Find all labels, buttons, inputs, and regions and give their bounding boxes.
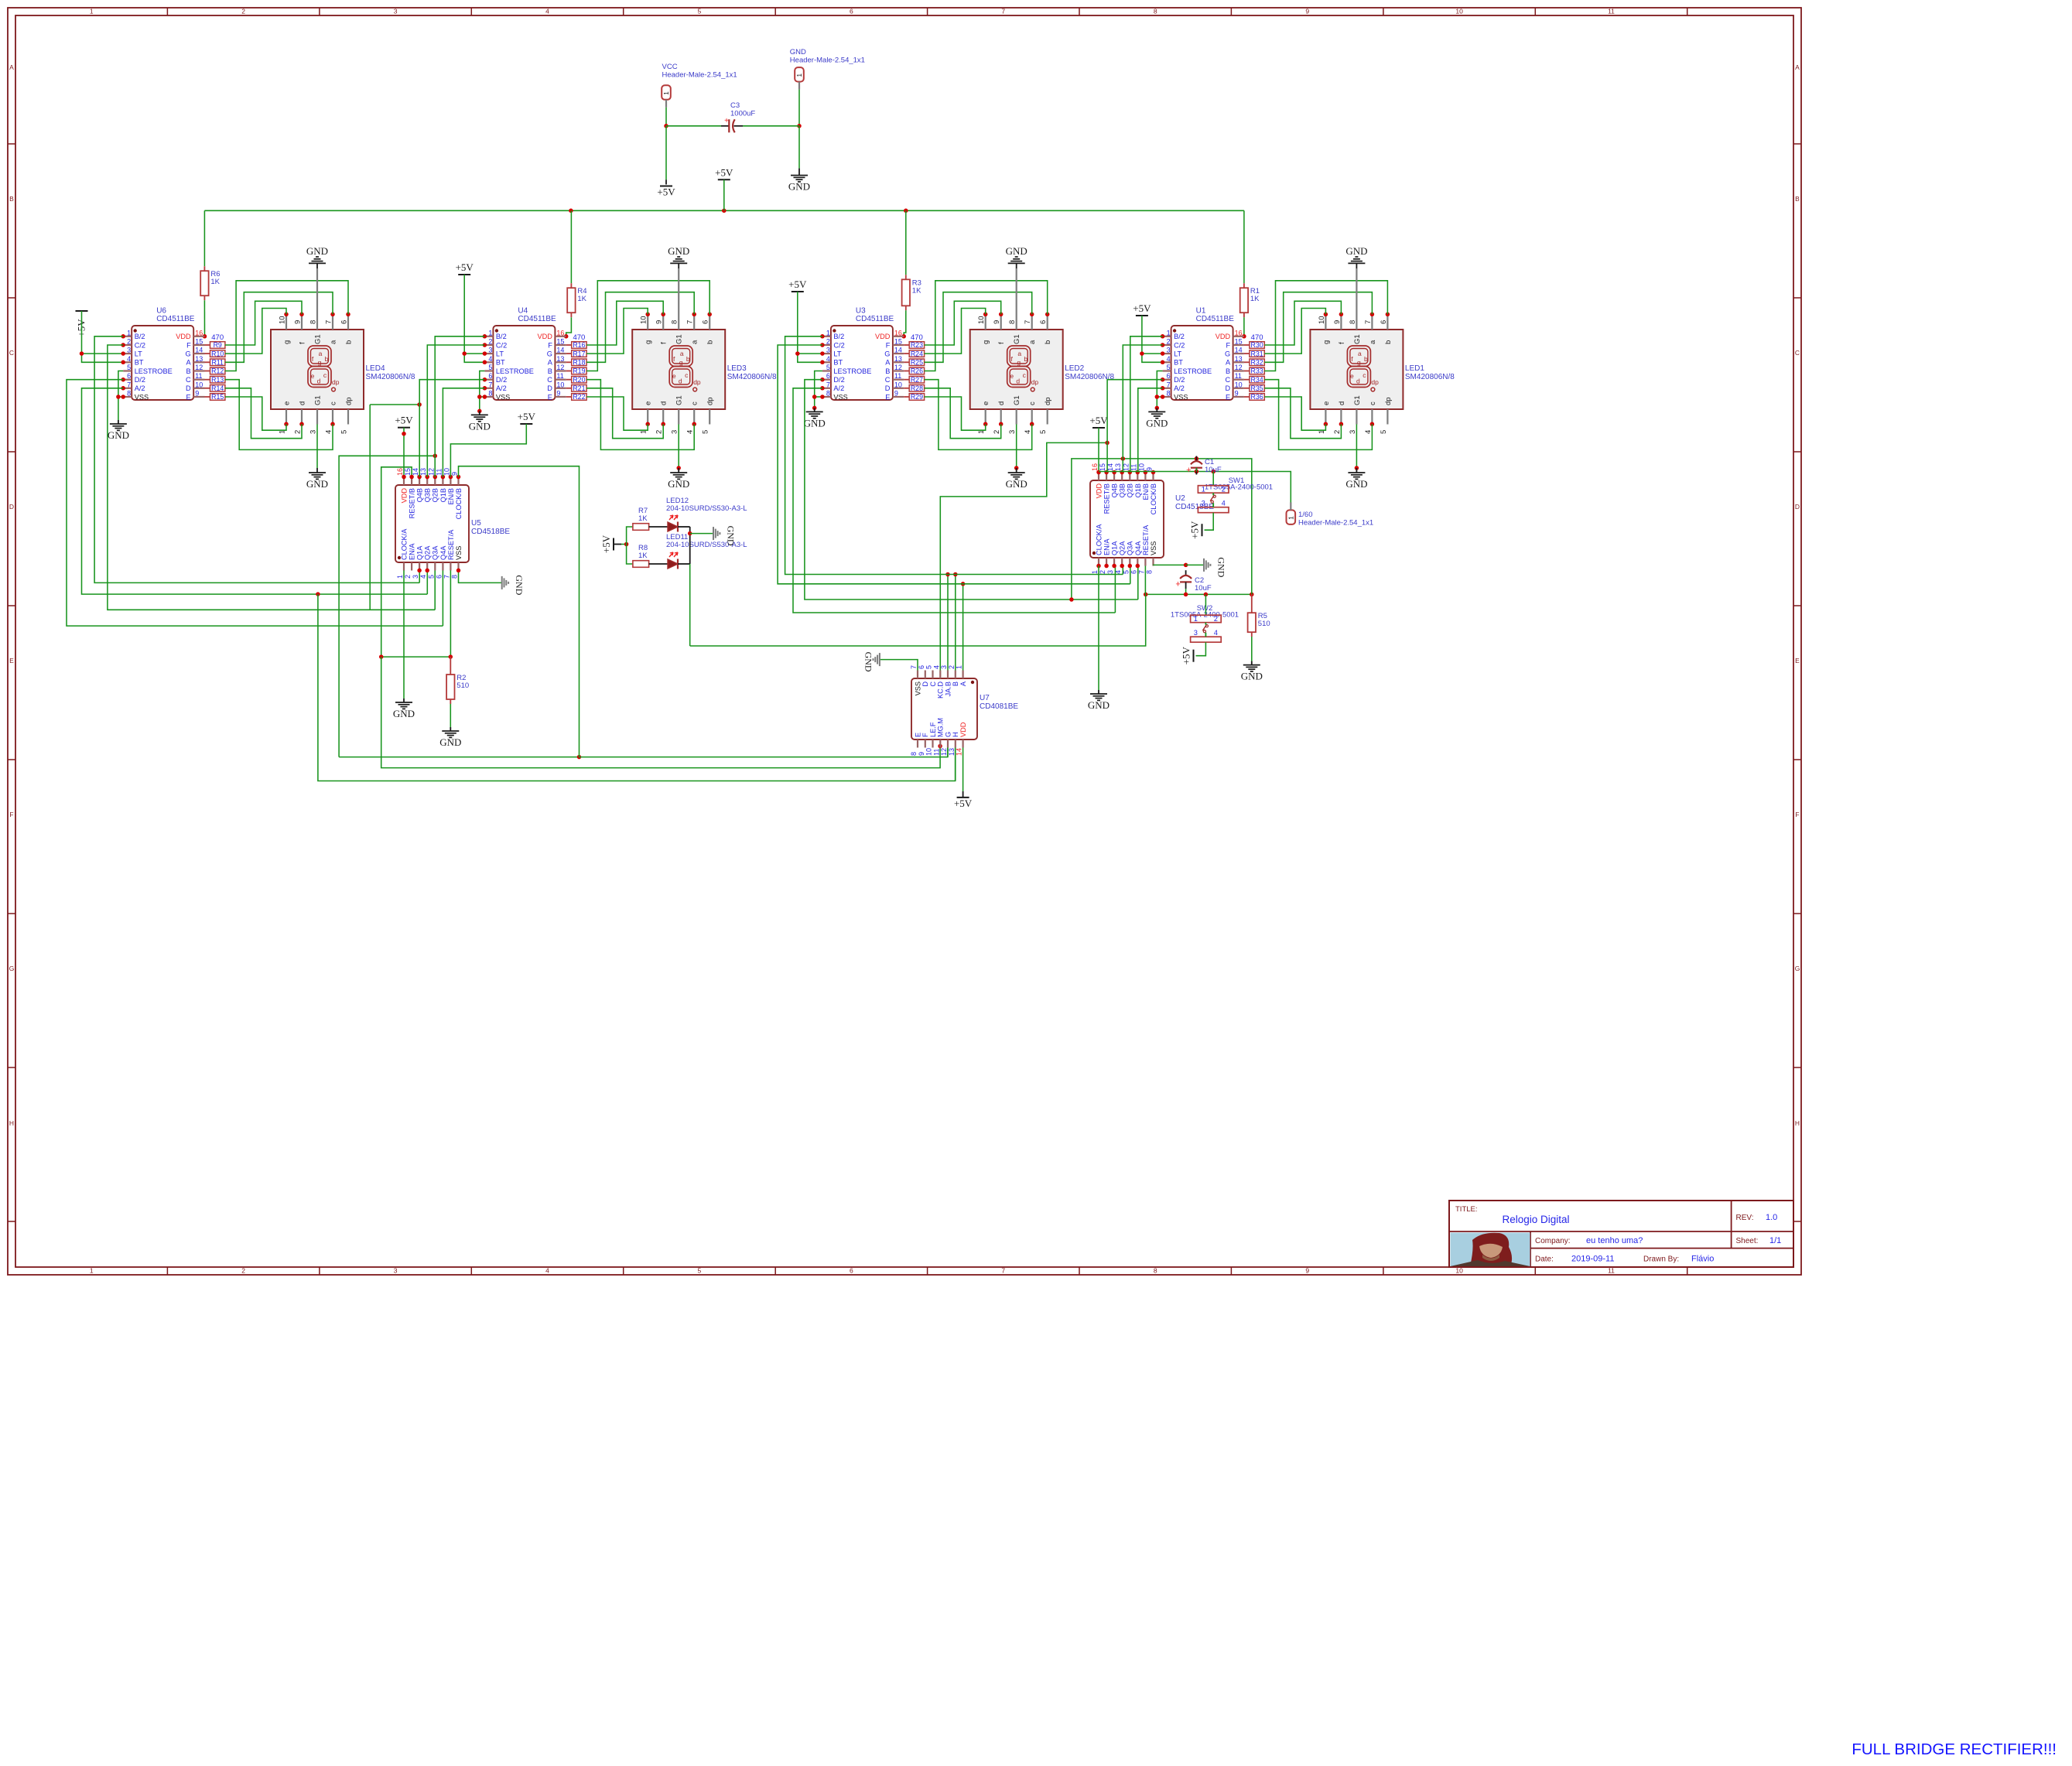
wire U3 B/2 bus — [785, 336, 1123, 575]
resistor R36 470 — [1250, 394, 1264, 401]
svg-text:10: 10 — [443, 468, 450, 476]
svg-text:1: 1 — [488, 329, 492, 336]
junction staircase C/2 row — [1121, 456, 1126, 461]
resistor R2 510 — [450, 657, 451, 675]
svg-text:EN/A: EN/A — [1103, 538, 1111, 555]
svg-text:R19: R19 — [573, 367, 585, 375]
junction pin4 U3 — [820, 360, 825, 365]
pin 3 U7 JA.B — [947, 671, 949, 679]
svg-text:dp: dp — [1044, 397, 1052, 405]
wire +5V to U2 VDD — [1098, 428, 1099, 473]
wire U2 RESET/A down — [1144, 566, 1146, 595]
pin 2 U2 EN/A — [1106, 558, 1107, 566]
junction LED cathode GND tap — [688, 531, 692, 536]
svg-text:a: a — [1017, 350, 1021, 357]
svg-text:B: B — [952, 681, 959, 686]
svg-text:4: 4 — [1024, 430, 1032, 434]
svg-text:e: e — [311, 372, 315, 380]
svg-text:8: 8 — [671, 320, 679, 324]
svg-text:8: 8 — [1008, 320, 1017, 324]
junction U5 top pin 13 — [425, 475, 429, 480]
resistor R17 470 — [572, 350, 586, 357]
resistor R7 1K — [633, 524, 649, 531]
junction A row — [961, 582, 966, 586]
svg-text:LE.F: LE.F — [929, 722, 937, 737]
svg-text:R25: R25 — [911, 359, 923, 367]
svg-text:b: b — [1044, 340, 1052, 344]
svg-text:A: A — [959, 681, 967, 686]
wire to R7 — [627, 527, 633, 545]
pin 8 LED3 G1 top — [678, 314, 679, 330]
svg-text:1K: 1K — [912, 286, 921, 295]
svg-text:CD4518BE: CD4518BE — [471, 528, 510, 536]
wire U7 G to row — [947, 748, 949, 757]
svg-text:dp: dp — [1384, 397, 1393, 405]
pin 2 U6 C/2 — [123, 344, 132, 346]
junction pin6 U6 — [121, 377, 125, 382]
pin 6 U7 D — [925, 671, 926, 679]
pin 11 U6 C — [193, 379, 204, 381]
svg-text:8: 8 — [127, 390, 131, 398]
junction JA.B row — [945, 572, 950, 577]
ground GND under header — [798, 169, 800, 176]
svg-text:GND: GND — [804, 417, 826, 429]
svg-text:Flávio: Flávio — [1691, 1255, 1714, 1264]
svg-text:11: 11 — [556, 372, 563, 380]
junction U2 bottom pin 5 — [1128, 564, 1133, 569]
resistor R11 470 — [210, 359, 225, 366]
pin 16 U3 VDD — [893, 336, 904, 337]
svg-text:3: 3 — [1202, 500, 1205, 507]
junction U2 top pin 9 — [1151, 470, 1156, 475]
svg-text:5: 5 — [826, 364, 830, 371]
svg-text:B/2: B/2 — [496, 333, 507, 340]
wire Q2A up — [426, 570, 428, 594]
svg-text:13: 13 — [948, 748, 956, 756]
wire R6 to VDD pin16 — [203, 300, 205, 336]
svg-text:4: 4 — [545, 8, 549, 15]
pin 12 U3 B — [893, 370, 904, 371]
svg-text:2: 2 — [488, 338, 492, 346]
svg-text:g: g — [283, 340, 292, 344]
pin 11 U7 MG.M — [939, 740, 941, 748]
pin 8 U4 VSS — [484, 396, 493, 398]
wire R3 to VDD pin16 — [904, 310, 906, 336]
svg-text:F: F — [921, 733, 929, 737]
svg-text:14: 14 — [1235, 347, 1243, 354]
svg-text:+5V: +5V — [395, 415, 413, 426]
junction U2 top pin 16 — [1096, 470, 1101, 475]
wire +5V to LT/BT U1 — [1142, 316, 1163, 362]
svg-text:9: 9 — [918, 752, 925, 756]
svg-text:7: 7 — [127, 381, 131, 388]
svg-text:d: d — [1338, 401, 1346, 405]
svg-text:D/2: D/2 — [833, 376, 844, 384]
svg-text:b: b — [1364, 355, 1368, 363]
svg-text:9: 9 — [1235, 390, 1239, 398]
pin 6 U2 Q4A — [1137, 558, 1138, 566]
pin 10 LED2 g top — [985, 314, 986, 330]
svg-text:GND: GND — [469, 420, 491, 432]
pin 14 U6 G — [193, 353, 204, 354]
wire GND header to node — [798, 90, 800, 126]
wire Q4A up — [442, 570, 443, 626]
svg-text:d: d — [1356, 377, 1360, 385]
wire U2 Q4A up — [1137, 566, 1139, 600]
svg-text:e: e — [645, 401, 653, 405]
junction C1 top row — [1195, 456, 1199, 461]
junction pin3 U4 — [483, 351, 487, 356]
resistor R19 470 — [572, 367, 586, 374]
wire U3 F to segment f — [925, 301, 1001, 345]
svg-text:D/2: D/2 — [496, 376, 507, 384]
svg-text:G: G — [884, 350, 890, 358]
svg-text:RESET/B: RESET/B — [409, 488, 416, 518]
svg-text:R31: R31 — [1251, 350, 1263, 357]
svg-text:D: D — [1795, 503, 1800, 511]
svg-text:R20: R20 — [573, 376, 585, 384]
svg-text:GND: GND — [788, 181, 810, 193]
svg-text:1: 1 — [90, 8, 94, 15]
svg-text:D: D — [186, 384, 191, 392]
svg-text:12: 12 — [556, 364, 564, 371]
wire C1 top — [1195, 459, 1197, 461]
svg-text:1: 1 — [396, 575, 404, 579]
svg-text:G1: G1 — [675, 334, 684, 344]
svg-text:f: f — [299, 342, 307, 344]
svg-text:B/2: B/2 — [833, 333, 844, 340]
pin 10 U4 D — [555, 388, 566, 389]
svg-text:a: a — [680, 350, 684, 357]
svg-text:Q1B: Q1B — [439, 488, 447, 502]
ground for U6 LESTROBE/VSS — [118, 371, 123, 421]
svg-text:JA.B: JA.B — [944, 681, 952, 696]
svg-text:F: F — [186, 341, 191, 349]
pin 6 LED1 b top — [1386, 314, 1388, 330]
wire U4 B to segment b — [586, 281, 709, 371]
pin 14 U2 Q4B — [1113, 473, 1115, 481]
ground GND below U2 — [1098, 690, 1099, 694]
wire U6 D to segment d — [225, 388, 302, 439]
svg-text:U5: U5 — [471, 519, 481, 528]
resistor R28 470 — [909, 385, 924, 392]
svg-text:LESTROBE: LESTROBE — [833, 367, 871, 375]
svg-text:dp: dp — [1371, 378, 1379, 386]
pin 3 U3 LT — [822, 353, 831, 354]
svg-text:GND: GND — [1345, 245, 1367, 257]
wire U1 G to segment g — [1264, 309, 1325, 354]
svg-text:G1: G1 — [1013, 395, 1021, 405]
pin 5 LED3 dp bottom — [709, 409, 710, 425]
pin 4 U5 Q2A — [426, 562, 428, 571]
svg-text:a: a — [691, 340, 699, 344]
op-amp U1 CD4511BE body — [1171, 326, 1233, 400]
power +5V sideways for LEDs — [613, 538, 614, 551]
resistor R5 510 — [1251, 594, 1253, 613]
svg-text:R9: R9 — [214, 341, 222, 349]
svg-text:14: 14 — [556, 347, 564, 354]
svg-text:4: 4 — [545, 1267, 549, 1275]
junction pin1 U3 — [820, 334, 825, 339]
svg-text:2: 2 — [1099, 570, 1106, 574]
resistor R12 470 — [210, 367, 225, 374]
svg-text:LESTROBE: LESTROBE — [135, 367, 173, 375]
junction U2 bottom pin 2 — [1104, 564, 1109, 569]
wire U4 A to segment a — [586, 292, 694, 363]
LED display LED2 SM420806N/8 body — [970, 330, 1063, 409]
svg-text:6: 6 — [1130, 570, 1137, 574]
svg-text:G1: G1 — [675, 395, 684, 405]
svg-text:510: 510 — [456, 681, 469, 690]
svg-text:+5V: +5V — [1181, 646, 1192, 664]
node VCC/C3+ — [664, 124, 668, 128]
pin 3 LED3 G1 bottom — [678, 409, 679, 425]
svg-text:6: 6 — [850, 8, 853, 15]
pin 1 U6 B/2 — [123, 336, 132, 337]
wire VCC to node — [665, 108, 667, 126]
pin 3 U5 Q1A — [419, 562, 420, 571]
junction pin3 U3 — [820, 351, 825, 356]
junction U2 top pin 11 — [1136, 470, 1140, 475]
svg-text:10: 10 — [279, 316, 287, 324]
svg-text:2: 2 — [241, 1267, 245, 1275]
op-amp U3 CD4511BE body — [831, 326, 893, 400]
svg-text:1: 1 — [956, 665, 963, 669]
pin 5 U4 LESTROBE — [484, 370, 493, 371]
wire U3 A/2 bus — [793, 388, 1115, 613]
svg-text:SM420806N/8: SM420806N/8 — [1405, 373, 1455, 381]
junction pin2 U4 — [483, 343, 487, 347]
svg-text:R13: R13 — [211, 376, 224, 384]
ground GND below LED2 — [1016, 425, 1017, 469]
ground sideways GND at U5 — [501, 576, 503, 589]
pin 15 U6 F — [193, 344, 204, 346]
wire U2 CLOCK/A to GND — [1098, 566, 1099, 691]
svg-text:A: A — [1795, 63, 1800, 71]
junction +5V stem — [402, 432, 406, 436]
wire U2 Q2A up — [1122, 566, 1123, 575]
pin 15 U1 F — [1233, 344, 1244, 346]
resistor R8 1K — [633, 561, 649, 568]
junction U2 top pin 12 — [1128, 470, 1133, 475]
svg-text:Header-Male-2.54_1x1: Header-Male-2.54_1x1 — [662, 71, 737, 80]
ground sideways GND at U2 — [1203, 558, 1205, 572]
node GND/C3- — [797, 124, 802, 128]
svg-text:Q4B: Q4B — [1111, 483, 1119, 497]
op-amp U7 CD4081BE body — [911, 678, 977, 740]
wire +5V to LED resistors — [614, 544, 621, 545]
svg-text:5: 5 — [427, 575, 435, 579]
svg-text:8: 8 — [1349, 320, 1357, 324]
svg-text:3: 3 — [1008, 430, 1017, 434]
svg-text:+5V: +5V — [518, 411, 536, 422]
pin 2 U1 C/2 — [1163, 344, 1171, 346]
pin 9 LED4 f top — [301, 314, 303, 330]
svg-text:GND: GND — [108, 429, 129, 441]
wire G row left part — [339, 757, 579, 758]
resistor R33 470 — [1250, 367, 1264, 374]
junction pin4 U4 — [483, 360, 487, 365]
LED1 seven segment glyph — [1347, 346, 1370, 367]
svg-text:A/2: A/2 — [496, 384, 507, 392]
svg-text:G: G — [9, 965, 15, 972]
pin 5 LED1 dp bottom — [1386, 409, 1388, 425]
junction RESET row left — [379, 654, 384, 659]
svg-text:R21: R21 — [573, 384, 585, 392]
svg-text:+5V: +5V — [600, 535, 612, 553]
svg-text:1: 1 — [1194, 615, 1198, 623]
wire C1 bottom — [1195, 468, 1197, 472]
pin 1 U4 B/2 — [484, 336, 493, 337]
ground sideways GND at LEDs — [713, 527, 714, 540]
svg-text:F: F — [886, 341, 891, 349]
svg-text:9: 9 — [294, 320, 303, 324]
svg-text:b: b — [686, 355, 690, 363]
pin 15 U4 F — [555, 344, 566, 346]
pin 14 U1 G — [1233, 353, 1244, 354]
wire SW2 top — [1205, 594, 1206, 615]
wire reset row to LED row — [690, 594, 1146, 646]
wire U3 E to segment e — [925, 397, 986, 430]
wire U7 VSS to GND — [880, 660, 918, 671]
svg-text:B: B — [885, 367, 890, 375]
svg-text:3: 3 — [1167, 347, 1171, 354]
resistor R20 470 — [572, 376, 586, 383]
svg-text:C: C — [929, 681, 937, 687]
pin 10 U5 EN/B — [450, 477, 451, 486]
pin 1 LED3 e bottom — [647, 409, 648, 425]
svg-text:E: E — [1795, 657, 1800, 664]
svg-text:U4: U4 — [518, 307, 528, 316]
svg-text:1K: 1K — [638, 514, 648, 523]
junction U7 MG.M — [938, 744, 942, 749]
junction A/2 bus tap — [316, 592, 320, 596]
svg-text:Company:: Company: — [1535, 1237, 1571, 1245]
junction U2 top pin 15 — [1104, 470, 1109, 475]
wire U7 A up — [962, 584, 964, 671]
svg-text:15: 15 — [894, 338, 902, 346]
svg-text:dp: dp — [1031, 378, 1039, 386]
svg-text:U1: U1 — [1196, 307, 1206, 316]
ground GND below LED4 — [316, 425, 318, 469]
svg-text:A: A — [885, 359, 891, 367]
pin 5 LED4 dp bottom — [347, 409, 349, 425]
svg-text:R10: R10 — [211, 350, 224, 357]
junction pin3 U1 — [1161, 351, 1165, 356]
wire U4 D to segment d — [586, 388, 663, 439]
pin 10 LED4 g top — [285, 314, 287, 330]
resistor R22 470 — [572, 394, 586, 401]
wire U1 B to segment b — [1264, 281, 1387, 371]
svg-text:Q3A: Q3A — [432, 545, 439, 560]
pin 9 U2 CLOCK/B — [1152, 473, 1154, 481]
wire U6 A to segment a — [225, 292, 333, 363]
svg-text:6: 6 — [127, 372, 131, 380]
pin 10 U2 EN/B — [1144, 473, 1146, 481]
svg-text:6: 6 — [918, 665, 925, 669]
svg-text:4: 4 — [686, 430, 695, 434]
svg-text:16: 16 — [894, 329, 902, 336]
svg-text:6: 6 — [488, 372, 492, 380]
svg-text:H: H — [1795, 1119, 1800, 1127]
wire U3 B to segment b — [925, 281, 1048, 371]
svg-text:e: e — [1350, 372, 1354, 380]
svg-text:7: 7 — [1001, 8, 1005, 15]
svg-text:Header-Male-2.54_1x1: Header-Male-2.54_1x1 — [790, 56, 865, 65]
svg-text:11: 11 — [195, 372, 202, 380]
resistor R13 470 — [210, 376, 225, 383]
junction RESET row right — [449, 654, 453, 659]
svg-text:dp: dp — [345, 397, 354, 405]
wire U5 VSS to GND — [459, 570, 502, 582]
svg-text:f: f — [997, 342, 1006, 344]
junction v1385 row — [1069, 597, 1074, 602]
wire +5V to U5 VDD — [403, 428, 405, 477]
svg-text:C/2: C/2 — [135, 341, 145, 349]
svg-text:VSS: VSS — [135, 393, 149, 401]
svg-text:GND: GND — [1006, 245, 1027, 257]
svg-text:c: c — [685, 371, 689, 379]
wire U6 B to segment b — [225, 281, 348, 371]
junction LT U6 — [80, 351, 84, 356]
svg-text:Header-Male-2.54_1x1: Header-Male-2.54_1x1 — [1298, 519, 1373, 528]
svg-text:Relogio Digital: Relogio Digital — [1502, 1214, 1569, 1225]
svg-text:8: 8 — [826, 390, 830, 398]
wire U1 C/2 from Q3B — [1123, 345, 1162, 473]
svg-text:LESTROBE: LESTROBE — [496, 367, 534, 375]
svg-text:VDD: VDD — [875, 333, 891, 340]
svg-text:R23: R23 — [911, 341, 923, 349]
svg-text:1K: 1K — [1250, 295, 1260, 303]
svg-text:16: 16 — [556, 329, 564, 336]
svg-text:4: 4 — [932, 665, 940, 669]
svg-text:D/2: D/2 — [1174, 376, 1185, 384]
junction U5 top pin 15 — [409, 475, 414, 480]
pin 9 LED2 f top — [1000, 314, 1002, 330]
svg-text:U3: U3 — [856, 307, 866, 316]
svg-text:6: 6 — [1380, 320, 1388, 324]
svg-text:H: H — [952, 732, 959, 737]
svg-text:11: 11 — [435, 469, 443, 476]
pin 1 U3 B/2 — [822, 336, 831, 337]
pin 9 U5 CLOCK/B — [457, 477, 459, 486]
ground for U3 LESTROBE/VSS — [815, 371, 822, 408]
wire U6 E to segment e — [225, 397, 286, 430]
svg-text:12: 12 — [940, 748, 948, 756]
svg-text:LT: LT — [1174, 350, 1181, 358]
svg-text:204-10SURD/S530-A3-L: 204-10SURD/S530-A3-L — [666, 504, 747, 513]
svg-text:VSS: VSS — [1150, 541, 1157, 555]
svg-text:R12: R12 — [211, 367, 224, 375]
svg-text:13: 13 — [894, 355, 902, 363]
svg-text:1.0: 1.0 — [1766, 1213, 1777, 1222]
wire U4 D/2 from Q4B — [419, 380, 484, 477]
svg-text:1K: 1K — [577, 295, 586, 303]
power +5V under VCC — [660, 186, 672, 187]
svg-text:eu tenho uma?: eu tenho uma? — [1586, 1236, 1643, 1245]
svg-text:Drawn By:: Drawn By: — [1643, 1255, 1679, 1264]
svg-text:F: F — [1795, 811, 1799, 818]
svg-text:7: 7 — [488, 381, 492, 388]
junction +5V rail feed — [722, 209, 727, 213]
LED4 seven segment glyph — [308, 346, 331, 367]
pin 5 U5 Q3A — [434, 562, 436, 571]
wire U4 B/2 from Q2B — [435, 336, 484, 477]
wire U5 CLOCK/A to GND — [403, 570, 405, 699]
svg-text:5: 5 — [1039, 430, 1048, 434]
pin 13 U7 H — [955, 740, 956, 748]
wire U1 A to segment a — [1264, 292, 1372, 363]
